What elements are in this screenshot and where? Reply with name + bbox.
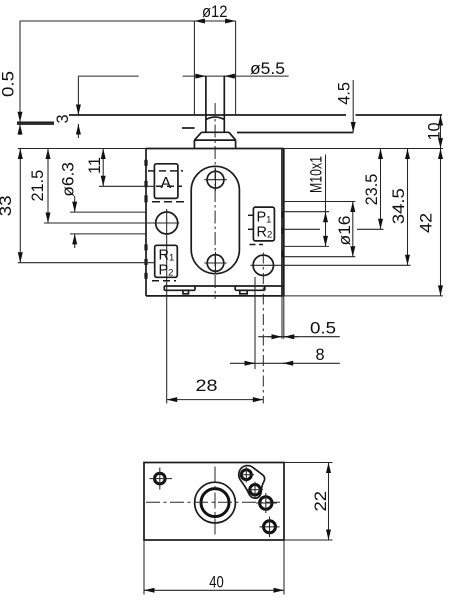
svg-text:4.5: 4.5: [336, 82, 354, 105]
svg-text:R2: R2: [257, 225, 273, 241]
svg-text:ø12: ø12: [202, 3, 228, 21]
svg-text:11: 11: [86, 157, 104, 174]
svg-text:28: 28: [196, 377, 218, 395]
svg-text:ø5.5: ø5.5: [250, 60, 285, 78]
svg-text:P1: P1: [257, 210, 272, 226]
svg-text:A: A: [161, 175, 172, 192]
svg-text:22: 22: [312, 491, 330, 512]
svg-text:34.5: 34.5: [390, 188, 408, 224]
svg-text:3: 3: [54, 114, 72, 123]
svg-text:40: 40: [209, 574, 224, 592]
svg-text:ø6.3: ø6.3: [60, 162, 78, 197]
svg-text:0.5: 0.5: [310, 320, 336, 338]
svg-text:21.5: 21.5: [29, 170, 47, 202]
svg-text:M10x1: M10x1: [308, 156, 326, 193]
svg-text:R1: R1: [159, 248, 175, 264]
svg-text:ø16: ø16: [336, 216, 354, 246]
svg-text:33: 33: [0, 195, 15, 216]
svg-text:42: 42: [418, 213, 436, 233]
svg-text:8: 8: [316, 346, 325, 364]
svg-text:0.5: 0.5: [0, 71, 17, 97]
svg-text:P2: P2: [159, 263, 174, 279]
svg-text:10: 10: [426, 122, 444, 140]
svg-text:23.5: 23.5: [363, 174, 381, 206]
